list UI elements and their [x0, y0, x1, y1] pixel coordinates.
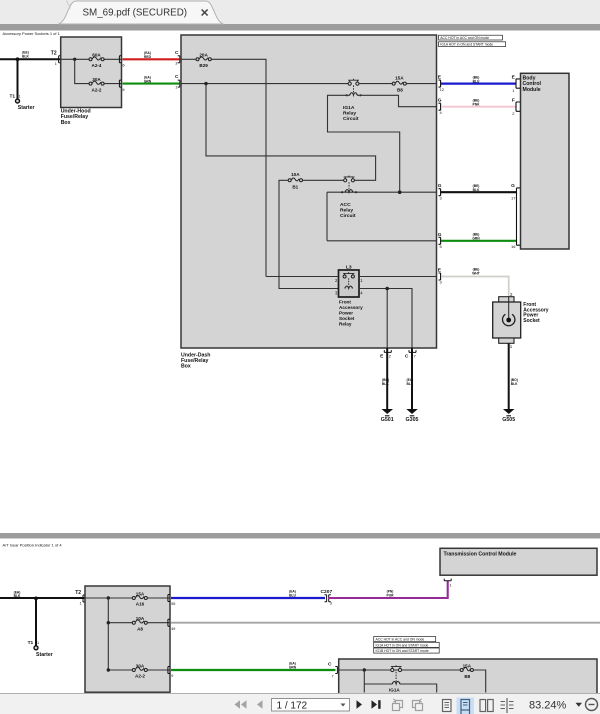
svg-text:6: 6: [123, 64, 125, 68]
page number combo box: [272, 699, 350, 712]
svg-text:15A: 15A: [136, 591, 145, 596]
zoom dropdown caret: [576, 703, 583, 707]
svg-text:GRN: GRN: [289, 666, 297, 670]
relay contact IG1A: [348, 79, 359, 85]
svg-text:Module: Module: [523, 87, 541, 93]
wire: A8 to box edge: [148, 622, 171, 624]
continuous view button (selected): [457, 698, 475, 714]
Under-Hood Fuse/Relay Box: [61, 37, 122, 108]
svg-text:1: 1: [37, 641, 39, 645]
relay coil page 2: [392, 681, 399, 684]
wire: socket to G505: [508, 343, 510, 410]
wire: 15A fuse to box edge: [407, 83, 437, 85]
svg-text:17: 17: [511, 195, 516, 200]
wire: A2-2 to box edge: [148, 669, 171, 671]
wire: green row inside box page 2: [339, 669, 460, 671]
label: IG1A Relay Circuit: [343, 105, 359, 122]
BCM connector bracket E pin 1: [512, 75, 521, 93]
svg-text:BLK: BLK: [14, 594, 21, 598]
wire: battery feed from left edge: [0, 58, 61, 60]
fuse B29 20A: [196, 53, 211, 68]
node: ground branch: [385, 287, 389, 291]
wire: GRN (BE) to BCM: [441, 240, 517, 242]
wire: GRY to page edge: [171, 622, 600, 624]
svg-text:T2: T2: [75, 590, 81, 596]
svg-text:1: 1: [80, 602, 82, 606]
node: junction to starter page 2: [34, 597, 38, 601]
svg-text:G305: G305: [406, 417, 419, 423]
terminal T1 starter: [10, 94, 35, 112]
pin 55: [168, 595, 176, 607]
mechanical link IG1A contact to coil: [353, 85, 355, 93]
svg-text:G505: G505: [502, 417, 515, 423]
connector G pin 5: [438, 232, 443, 249]
svg-text:B8: B8: [397, 87, 403, 92]
svg-text:15A: 15A: [395, 75, 404, 80]
previous view button: [393, 699, 403, 711]
relay L3 Front Accessory Power Socket Relay: [335, 264, 363, 297]
wire: branch down-right to ACC contact: [206, 84, 376, 181]
previous page button: [257, 700, 263, 709]
connector C pin 3 (red wire): [175, 50, 180, 66]
svg-text:IG1A HOT in ON and START mode: IG1A HOT in ON and START mode: [440, 43, 493, 47]
svg-text:G: G: [511, 183, 515, 189]
wire: contact to 15A fuse: [359, 83, 392, 85]
Under-Dash Fuse/Relay Box page 2: [339, 659, 597, 709]
svg-text:T1: T1: [10, 94, 16, 100]
svg-text:C: C: [175, 50, 179, 56]
svg-text:Front: Front: [339, 300, 351, 305]
wire: box feed: [61, 58, 89, 60]
connector C207 pin 3: [321, 589, 333, 606]
fuse B1 10A: [288, 172, 302, 189]
label: Under-Dash Fuse/Relay Box: [181, 353, 210, 370]
svg-text:ACC HOT in ACC and ON mode: ACC HOT in ACC and ON mode: [440, 36, 489, 40]
svg-text:1: 1: [55, 62, 57, 66]
active document tab: [59, 1, 224, 25]
node: green row branch: [204, 82, 207, 85]
IG1A Relay Circuit box outline: [328, 95, 437, 192]
next view button: [413, 699, 423, 711]
relay contact ACC: [344, 176, 355, 182]
svg-text:ACC: ACC: [340, 202, 351, 208]
last page button: [372, 700, 381, 709]
note: IG1A HOT in ON and START mode (page 2): [374, 642, 440, 647]
BCM connector bracket G pins 17/16: [511, 183, 520, 249]
wire: drop to starter: [17, 59, 19, 99]
wire: 10A fuse to ACC contact: [303, 179, 344, 181]
ACC Relay Circuit box outline: [327, 192, 437, 241]
wire: GRN (EA) 30A to under-dash: [123, 83, 180, 85]
svg-text:IG1B HOT in ON and START mode: IG1B HOT in ON and START mode: [376, 649, 429, 653]
connector G pin 3: [438, 183, 443, 200]
connector C pin 1 (green wire): [175, 74, 180, 90]
pin 9: [168, 667, 173, 679]
svg-text:A/T Gear Position Indicator 1: A/T Gear Position Indicator 1 of 4: [3, 542, 63, 547]
svg-text:20A: 20A: [199, 53, 208, 58]
wire: WHT (BE) to socket: [441, 277, 509, 297]
svg-text:9: 9: [171, 674, 173, 678]
pin E2 at under-dash box bottom: [380, 350, 392, 359]
fuse A16 15A: [132, 591, 147, 606]
wire: A16 to box edge: [148, 597, 171, 599]
svg-text:16: 16: [511, 244, 516, 249]
first page button: [235, 700, 247, 709]
svg-text:BLK: BLK: [407, 382, 414, 386]
svg-text:Starter: Starter: [36, 652, 53, 658]
wire: L3 pin4 to grounds: [359, 289, 412, 349]
node: branch A2-2: [107, 668, 110, 671]
svg-text:IG1A HOT in ON and START mode: IG1A HOT in ON and START mode: [376, 643, 429, 647]
svg-text:Box: Box: [181, 364, 191, 370]
svg-text:15A: 15A: [463, 663, 472, 668]
wire: 10A fuse left then down to L3 coil: [279, 180, 339, 288]
label: Front Accessory Power Socket Relay: [339, 300, 363, 327]
svg-text:Circuit: Circuit: [340, 213, 356, 219]
svg-text:Starter: Starter: [18, 105, 35, 111]
wire: red feed to 20A fuse: [181, 58, 196, 60]
svg-text:1: 1: [175, 86, 177, 90]
wire: GRN (EA) to under-dash page 2: [171, 669, 336, 671]
relay coil ACC: [340, 190, 358, 194]
next page button: [357, 700, 363, 709]
svg-text:T2: T2: [51, 51, 57, 57]
svg-text:BLK: BLK: [511, 382, 518, 386]
fuse A2-4 60A: [89, 53, 104, 68]
wire: feed into box page 2: [85, 597, 132, 599]
Under-Hood Fuse/Relay Box page 2: [85, 586, 170, 692]
TCM connector bracket pin 1: [444, 579, 452, 588]
wire: RED (EA) 60A to under-dash: [123, 58, 180, 60]
pin 49: [168, 619, 176, 631]
svg-text:A2-2: A2-2: [135, 674, 145, 679]
label: Front Accessory Power Socket: [523, 302, 549, 324]
svg-text:Power: Power: [339, 311, 353, 316]
wire label (EH) BLK: [14, 590, 21, 598]
svg-text:C207: C207: [321, 589, 333, 595]
bottom viewer toolbar: [0, 693, 600, 714]
svg-text:C: C: [405, 354, 409, 360]
wire: black row (ACC box top) to G3: [327, 191, 437, 193]
svg-text:C: C: [328, 662, 332, 668]
svg-text:Transmission Control Module: Transmission Control Module: [444, 552, 517, 558]
svg-text:Accessory Power Sockets 1 of 1: Accessory Power Sockets 1 of 1: [3, 31, 61, 36]
svg-text:1 / 172: 1 / 172: [277, 700, 308, 711]
svg-text:GRN: GRN: [472, 237, 480, 241]
terminal T2 page 2: [75, 590, 85, 606]
svg-text:RED: RED: [144, 55, 152, 59]
pin C7 at under-dash box bottom: [405, 350, 417, 359]
svg-text:49: 49: [171, 627, 175, 631]
BCM connector bracket F pin 2: [512, 98, 521, 116]
svg-text:Relay: Relay: [343, 111, 356, 117]
svg-text:B1: B1: [292, 184, 298, 189]
node: branch A8: [107, 621, 110, 624]
svg-text:BLU: BLU: [473, 79, 480, 83]
fuse A2-2 30A: [89, 77, 104, 92]
two page view button: [480, 700, 493, 712]
svg-text:ACC HOT in ACC and ON mode: ACC HOT in ACC and ON mode: [376, 638, 425, 642]
svg-text:Relay: Relay: [339, 322, 352, 327]
wire label (EE) BLK: [22, 51, 29, 59]
IG1A relay circuit outline page 2: [364, 684, 436, 693]
fuse A2-2 30A: [132, 663, 147, 678]
svg-text:B29: B29: [199, 63, 208, 68]
connector C pin 7 page 2: [328, 662, 337, 679]
ground G505: [502, 409, 515, 423]
fuse A8 10A: [132, 616, 147, 631]
wire: E2 to G501: [386, 348, 388, 410]
wire: PUR (PN) to TCM: [328, 581, 448, 598]
svg-text:A16: A16: [136, 602, 145, 607]
svg-text:10A: 10A: [291, 172, 300, 177]
note: IG1B HOT in ON and START mode (page 2): [374, 648, 440, 653]
wire: 60A fuse to box edge: [104, 58, 121, 60]
svg-text:3: 3: [175, 61, 177, 65]
wire: B8 output down page 2: [474, 670, 486, 693]
svg-text:BLK: BLK: [22, 55, 29, 59]
svg-text:IG1A: IG1A: [389, 688, 400, 693]
svg-text:A2-2: A2-2: [92, 87, 102, 92]
connector E pin 12: [438, 75, 445, 92]
svg-text:3: 3: [330, 601, 332, 605]
svg-text:Relay: Relay: [340, 208, 353, 214]
svg-text:BLU: BLU: [289, 594, 296, 598]
svg-text:12: 12: [440, 87, 445, 92]
svg-text:A8: A8: [137, 626, 143, 631]
svg-text:G501: G501: [381, 417, 394, 423]
wire: riser to lower fuses: [108, 598, 132, 670]
wire: green row through box: [181, 83, 349, 85]
svg-text:WHT: WHT: [472, 271, 480, 275]
wire: C7 to G305: [411, 348, 413, 410]
svg-text:Circuit: Circuit: [343, 116, 359, 122]
relay coil IG1A: [345, 93, 363, 97]
svg-text:B8: B8: [464, 674, 470, 679]
svg-text:Box: Box: [61, 120, 71, 126]
node: branch in under-hood box: [73, 58, 76, 61]
svg-text:Accessory: Accessory: [339, 305, 363, 310]
node: branch page 2: [363, 668, 366, 671]
terminal T2 label: [51, 51, 61, 67]
Under-Dash Fuse/Relay Box: [181, 35, 437, 348]
node: junction to starter: [16, 57, 20, 61]
single page view button: [443, 700, 452, 712]
wire: 30A fuse to box edge: [104, 83, 121, 85]
svg-text:✕: ✕: [200, 8, 209, 20]
mechanical link page 2 relay: [395, 672, 397, 682]
svg-text:Socket: Socket: [339, 316, 355, 321]
svg-text:PNK: PNK: [473, 102, 481, 106]
connector E pin 3: [438, 268, 443, 285]
svg-text:30A: 30A: [92, 77, 101, 82]
Front Accessory Power Socket: [493, 292, 521, 349]
zoom out button: [586, 699, 598, 711]
note: ACC HOT in ACC and ON mode (page 2): [374, 637, 436, 642]
pin 6 (30A output): [119, 80, 124, 92]
svg-text:PUR: PUR: [387, 594, 395, 598]
Transmission Control Module box: [440, 548, 597, 575]
label: ACC Relay Circuit: [340, 202, 356, 219]
note: IG1A HOT in ON and START mode: [439, 42, 506, 47]
node: branch A16: [107, 596, 110, 599]
wire: battery feed page 2: [0, 597, 85, 599]
wire: 20A riser to L3 contact: [266, 276, 339, 278]
wire: branch down page 2: [363, 670, 365, 693]
wire: 20A fuse output right then down: [212, 59, 267, 276]
svg-text:IG1A: IG1A: [343, 105, 355, 111]
Body Control Module box: [521, 73, 570, 249]
tab bar: [0, 0, 600, 24]
pin 6 (60A output): [119, 56, 124, 68]
node: IG1A drop joins black row: [398, 190, 402, 194]
svg-text:1: 1: [19, 95, 21, 99]
svg-text:60A: 60A: [92, 53, 101, 58]
wire: L3 pin1 to E3: [359, 276, 437, 278]
svg-text:BLK: BLK: [473, 188, 480, 192]
wire: drop to starter page 2: [35, 598, 37, 645]
wire: branch to 30A fuse: [75, 59, 89, 83]
page fit button: [501, 698, 514, 713]
svg-text:6: 6: [123, 88, 125, 92]
mechanical link ACC contact to coil: [348, 182, 350, 190]
fuse B8 15A page 2: [460, 663, 473, 679]
connector G pin 4: [438, 98, 443, 115]
svg-text:10A: 10A: [136, 616, 145, 621]
svg-text:7: 7: [332, 674, 334, 678]
ground G305: [406, 409, 419, 423]
fuse B8 15A: [392, 75, 406, 92]
wire: BLK (BE) to BCM: [441, 191, 517, 193]
note: ACC HOT in ACC and ON mode: [439, 35, 503, 40]
ground G501: [381, 409, 394, 423]
wire: PNK (BE) to BCM: [441, 106, 516, 108]
svg-text:GRN: GRN: [144, 79, 152, 83]
svg-text:BLK: BLK: [382, 382, 389, 386]
wire: BLU (EA) to C207: [171, 597, 325, 599]
svg-text:83.24%: 83.24%: [529, 700, 567, 712]
svg-text:30A: 30A: [136, 663, 145, 668]
label: Under-Hood Fuse/Relay Box: [61, 109, 91, 126]
page 1 sheet: [0, 31, 600, 534]
svg-text:T1: T1: [28, 640, 34, 646]
svg-text:C: C: [175, 74, 179, 80]
svg-text:F: F: [512, 98, 515, 104]
wire: BLU (BE) to BCM: [441, 82, 516, 84]
page 2 sheet: [0, 539, 600, 694]
svg-text:55: 55: [171, 602, 175, 606]
svg-text:SM_69.pdf (SECURED): SM_69.pdf (SECURED): [83, 8, 188, 19]
svg-text:A2-4: A2-4: [92, 63, 102, 68]
relay contact IG1A page 2: [391, 665, 402, 671]
svg-text:Socket: Socket: [523, 318, 540, 324]
terminal T1 starter page 2: [28, 640, 53, 658]
label: Body Control Module: [523, 76, 542, 93]
